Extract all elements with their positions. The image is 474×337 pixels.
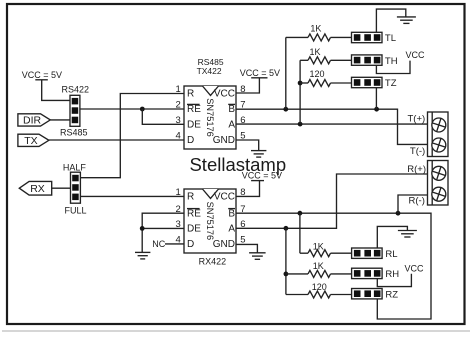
svg-text:RH: RH bbox=[385, 269, 399, 280]
svg-text:3: 3 bbox=[176, 115, 181, 126]
wire J2 FULL pin to U2 pin1 R bbox=[80, 195, 184, 197]
svg-text:R: R bbox=[187, 89, 194, 100]
wire U2 pin5 to ground bbox=[236, 244, 257, 252]
junction node B2/R(-) bbox=[396, 211, 401, 216]
IC U2 SN75176 (RX422) bbox=[176, 187, 246, 253]
svg-text:RS485: RS485 bbox=[60, 128, 88, 138]
svg-text:DIR: DIR bbox=[23, 115, 42, 127]
wire J1 middle pin to U1 pin2 RE bbox=[80, 108, 184, 110]
svg-text:VCC: VCC bbox=[214, 89, 235, 100]
junction node B/TL bbox=[283, 107, 288, 112]
svg-text:1K: 1K bbox=[310, 47, 321, 57]
svg-text:B: B bbox=[228, 104, 235, 115]
wire U2 pin8 to VCC bbox=[236, 181, 260, 197]
wire net A2 down to RH/RZ bbox=[285, 228, 287, 294]
wire NC to U2 pin4 bbox=[165, 243, 184, 245]
wire RL to ground bbox=[377, 226, 407, 248]
svg-text:RZ: RZ bbox=[385, 289, 398, 300]
svg-text:R(-): R(-) bbox=[409, 196, 425, 207]
ground (top right) bbox=[397, 17, 416, 24]
svg-text:120: 120 bbox=[312, 282, 327, 292]
svg-text:T(+): T(+) bbox=[408, 114, 426, 125]
power VCC = 5V (U1 pin8) bbox=[240, 68, 280, 78]
svg-text:VCC = 5V: VCC = 5V bbox=[242, 170, 282, 180]
wire U1 pin1 R to jumper J2 HALF pin bbox=[80, 94, 184, 178]
jumper TH bbox=[352, 55, 383, 65]
wire TX to U1 pin4 D bbox=[49, 139, 184, 141]
port RX flag bbox=[19, 181, 51, 195]
svg-text:A: A bbox=[228, 120, 235, 131]
svg-text:RL: RL bbox=[385, 249, 397, 260]
svg-text:B: B bbox=[228, 208, 235, 219]
svg-text:4: 4 bbox=[176, 131, 181, 142]
svg-text:VCC: VCC bbox=[214, 192, 235, 203]
svg-text:FULL: FULL bbox=[65, 205, 87, 215]
ground (U1 pin5) bbox=[251, 151, 266, 158]
svg-text:120: 120 bbox=[310, 69, 325, 79]
svg-text:TX422: TX422 bbox=[197, 66, 222, 76]
svg-text:D: D bbox=[187, 135, 194, 146]
resistor 1K (TL) bbox=[286, 24, 352, 41]
wire net B up to resistor TL bbox=[285, 37, 287, 109]
port TX flag bbox=[18, 134, 49, 147]
svg-text:2: 2 bbox=[176, 100, 181, 111]
wire net A up to TH/TZ bbox=[299, 60, 301, 124]
wire TH to VCC bbox=[376, 61, 410, 74]
svg-text:TX: TX bbox=[24, 135, 37, 147]
svg-text:A: A bbox=[228, 224, 235, 235]
svg-text:VCC: VCC bbox=[405, 264, 425, 274]
svg-text:SN75176: SN75176 bbox=[204, 98, 215, 137]
port DIR flag bbox=[18, 114, 50, 127]
svg-text:TH: TH bbox=[385, 56, 398, 67]
junction node RH tap bbox=[284, 272, 289, 277]
wire U1 pin8 to VCC bbox=[236, 78, 259, 93]
ground (RL) bbox=[398, 231, 417, 238]
power VCC = 5V (U2 pin8) bbox=[242, 170, 282, 180]
svg-text:TL: TL bbox=[385, 33, 396, 44]
svg-text:SN75176: SN75176 bbox=[204, 202, 215, 241]
resistor 1K (RL) bbox=[300, 241, 352, 256]
ground (U2 pin2/3) bbox=[135, 252, 150, 259]
junction node RE/DE bbox=[140, 226, 145, 231]
svg-text:DE: DE bbox=[187, 224, 201, 235]
junction node B2/RL bbox=[298, 211, 303, 216]
junction node B/TZ bbox=[374, 107, 379, 112]
jumper RL bbox=[352, 248, 383, 258]
resistor 1K (TH) bbox=[300, 47, 351, 64]
svg-text:1K: 1K bbox=[313, 261, 324, 271]
wire DIR to J1 bbox=[50, 119, 70, 121]
svg-text:NC: NC bbox=[152, 239, 165, 249]
wire net B2: U2 pin7 around to RZ bbox=[236, 213, 431, 319]
wire U2 pin2/pin3 to ground bbox=[142, 213, 184, 252]
svg-text:RX422: RX422 bbox=[199, 257, 227, 267]
wire net B: U1 pin7 to T(-) terminal bbox=[236, 109, 428, 144]
wire U1 pin5 to ground bbox=[236, 140, 259, 151]
svg-text:RS422: RS422 bbox=[62, 85, 90, 95]
wire net B2 down to resistor RL bbox=[299, 213, 301, 253]
svg-text:VCC: VCC bbox=[406, 50, 426, 60]
terminal block T bbox=[428, 112, 449, 157]
wire RH to VCC bbox=[377, 274, 411, 287]
svg-text:VCC = 5V: VCC = 5V bbox=[240, 68, 280, 78]
junction dot bbox=[140, 107, 145, 112]
svg-text:TZ: TZ bbox=[385, 78, 397, 89]
svg-text:RE: RE bbox=[187, 104, 201, 115]
svg-text:1K: 1K bbox=[313, 241, 324, 251]
resistor 120 (TZ) bbox=[300, 69, 351, 86]
svg-text:1: 1 bbox=[176, 84, 181, 95]
wire R(-) branch bbox=[398, 195, 428, 213]
wire TZ to net B bbox=[375, 88, 377, 110]
IC U1 SN75176 (TX422) bbox=[176, 84, 246, 149]
svg-text:RE: RE bbox=[187, 208, 201, 219]
jumper TZ bbox=[352, 77, 383, 87]
jumper J2 HALF/FULL bbox=[71, 172, 81, 203]
resistor 120 (RZ) bbox=[286, 282, 352, 298]
jumper RZ bbox=[352, 289, 383, 299]
jumper J1 RS422/RS485 bbox=[70, 95, 80, 126]
wire RX to J2 middle pin bbox=[52, 187, 71, 189]
resistor 1K (RH) bbox=[286, 261, 352, 277]
junction node A/TH bbox=[298, 122, 303, 127]
svg-text:HALF: HALF bbox=[63, 163, 87, 173]
svg-text:R: R bbox=[187, 192, 194, 203]
svg-text:D: D bbox=[187, 239, 194, 250]
ground (U2 pin5) bbox=[249, 253, 266, 259]
svg-text:R(+): R(+) bbox=[407, 164, 426, 175]
svg-text:1: 1 bbox=[176, 187, 181, 198]
junction node A2/RH bbox=[284, 226, 289, 231]
svg-text:GND: GND bbox=[213, 135, 235, 146]
svg-text:1K: 1K bbox=[310, 24, 321, 34]
wire net A: U1 pin6 to T(+) terminal bbox=[236, 123, 428, 125]
svg-text:T(-): T(-) bbox=[410, 146, 425, 157]
svg-text:DE: DE bbox=[187, 120, 201, 131]
junction node TZ tap bbox=[298, 81, 303, 86]
wire junction to U1 pin3 DE bbox=[142, 109, 184, 124]
terminal block R bbox=[428, 161, 449, 206]
jumper RH bbox=[352, 268, 383, 278]
wire TL to ground bbox=[376, 9, 405, 32]
power VCC = 5V (top left) bbox=[22, 70, 62, 80]
wire net A2: U2 pin6 to R(+) terminal bbox=[236, 174, 428, 228]
svg-text:GND: GND bbox=[213, 239, 235, 250]
jumper TL bbox=[352, 32, 383, 42]
svg-text:RX: RX bbox=[30, 183, 45, 195]
svg-text:VCC = 5V: VCC = 5V bbox=[22, 70, 62, 80]
wire VCC to jumper J1 bbox=[42, 80, 70, 101]
